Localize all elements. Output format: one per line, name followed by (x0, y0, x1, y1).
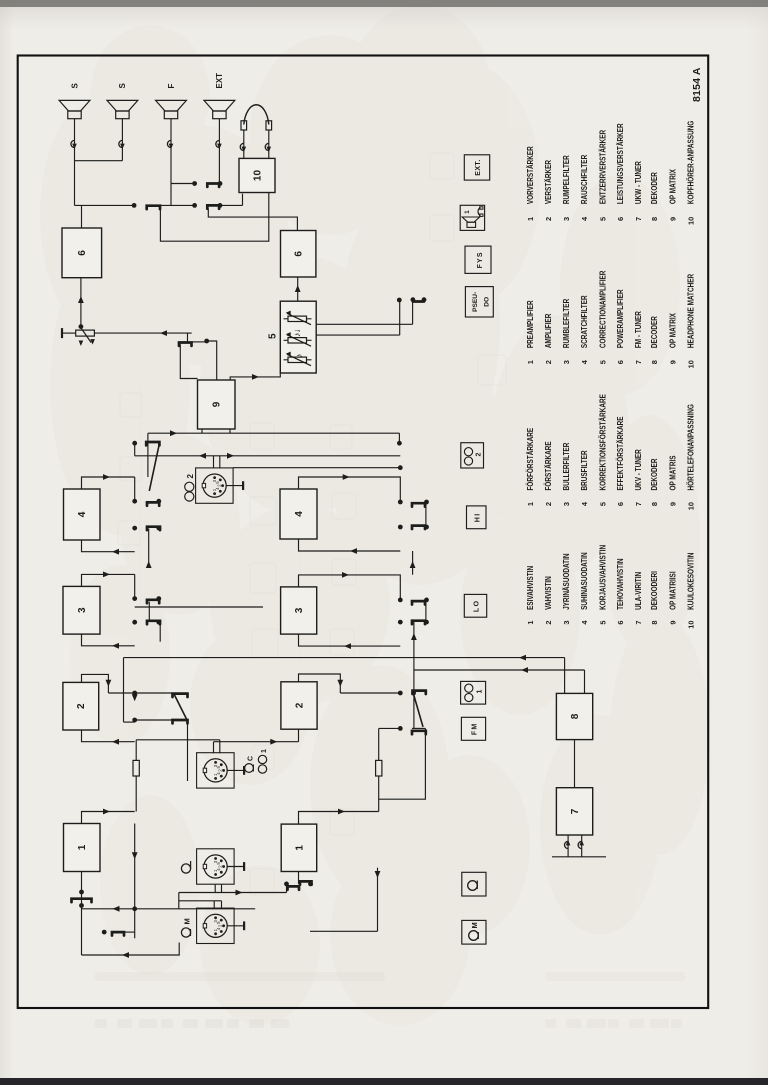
block B8 (8) (556, 693, 592, 739)
switch blade thrown (414, 694, 423, 727)
scanner dark band bottom (0, 1078, 768, 1085)
svg-text:PREAMPLIFIER: PREAMPLIFIER (526, 300, 535, 348)
DIN1 stub 1 (213, 742, 215, 754)
svg-text:♪♩: ♪♩ (292, 324, 302, 338)
ch B in jog x439 (299, 634, 401, 646)
junction (398, 691, 403, 696)
junction (132, 718, 137, 723)
plug hook (578, 841, 582, 848)
svg-text:10: 10 (252, 170, 263, 182)
svg-text:3: 3 (213, 920, 218, 923)
block B4b (4) (280, 489, 317, 539)
ch A out jog x608 (82, 477, 135, 489)
junction (132, 203, 137, 208)
speaker lead y=74.5 (74, 119, 76, 161)
svg-text:3: 3 (562, 217, 571, 221)
arrow (90, 339, 95, 345)
svg-text:EXT.: EXT. (475, 159, 482, 175)
junction (398, 620, 403, 625)
svg-text:3: 3 (562, 360, 571, 364)
tape1 C icon (245, 764, 254, 773)
B6b out (208, 209, 297, 231)
arrow (227, 453, 234, 459)
block B2b (2) (281, 682, 317, 729)
border frame (18, 56, 709, 1009)
speaker+phones icon (467, 222, 476, 227)
arrow (112, 739, 119, 745)
svg-text:2: 2 (476, 453, 483, 457)
row link B3b-B4b (412, 551, 414, 575)
svg-text:4: 4 (294, 511, 305, 517)
bleed text smudge 2 (545, 1019, 682, 1028)
svg-text:8: 8 (570, 713, 581, 719)
svg-text:HÖRTELEFONANPASSNING: HÖRTELEFONANPASSNING (687, 404, 696, 490)
FM bus x415 (414, 669, 585, 671)
svg-text:DEKOODERI: DEKOODERI (650, 571, 659, 610)
svg-text:10: 10 (687, 621, 696, 629)
svg-text:ULA-VIRITIN: ULA-VIRITIN (634, 572, 643, 610)
hook arrow (242, 147, 247, 153)
svg-text:2: 2 (294, 702, 305, 708)
svg-text:8154 A: 8154 A (691, 67, 703, 102)
svg-text:SCRATCHFILTER: SCRATCHFILTER (580, 295, 589, 348)
pot to B6a (80, 278, 82, 327)
junction (422, 297, 427, 302)
svg-text:FYS: FYS (477, 251, 484, 268)
svg-text:7: 7 (634, 360, 643, 364)
hook arrow (217, 144, 222, 150)
svg-text:2: 2 (218, 865, 223, 868)
arrow (295, 285, 301, 292)
hook arrow (566, 840, 571, 846)
DIN2 stub 2 (219, 456, 221, 469)
junction (218, 203, 223, 208)
plug hook (216, 140, 220, 147)
DIN socket tape 1 (197, 753, 235, 788)
ch A in jog x533 (82, 540, 135, 552)
riser link (178, 893, 180, 909)
svg-text:DEKODER: DEKODER (650, 172, 659, 204)
tape bus x478 (135, 606, 263, 608)
B1b out jog (299, 812, 379, 825)
bleed strip inside 2 (545, 972, 685, 981)
arrow (411, 633, 417, 640)
junction (192, 181, 197, 186)
pot line down (94, 332, 191, 334)
ch A out jog x274 (82, 812, 135, 824)
svg-text:1: 1 (77, 844, 88, 850)
tape play row B (413, 622, 415, 728)
arrow (112, 643, 119, 649)
junction (398, 598, 403, 603)
B1b in (298, 872, 300, 884)
arrow (410, 561, 416, 568)
svg-text:1: 1 (294, 845, 305, 851)
switch near pot (179, 343, 192, 346)
svg-text:4: 4 (77, 511, 88, 517)
tape2 blade (413, 300, 424, 303)
phono riser/down feed (179, 892, 287, 894)
svg-text:BRUSFILTER: BRUSFILTER (580, 450, 589, 490)
junction (132, 691, 137, 696)
plug hook (71, 140, 75, 147)
switch blade (173, 720, 188, 723)
svg-text:7: 7 (634, 502, 643, 506)
svg-text:6: 6 (616, 360, 625, 364)
svg-text:RUMBLEFILTER: RUMBLEFILTER (562, 299, 571, 348)
svg-text:4: 4 (580, 216, 589, 221)
F drop (171, 183, 195, 185)
into B9 ch A (201, 429, 203, 433)
junction (79, 890, 84, 895)
junction (424, 620, 429, 625)
junction (132, 906, 137, 911)
phono pin stub 2 (221, 885, 223, 893)
input feed 2 (82, 908, 256, 910)
B6a out to S line (81, 205, 83, 228)
svg-text:4: 4 (580, 501, 589, 506)
phono icon label (181, 864, 190, 873)
svg-text:1: 1 (526, 360, 535, 364)
junction (79, 903, 84, 908)
svg-text:TEHOVAHVISTIN: TEHOVAHVISTIN (616, 558, 625, 610)
speaker S 2 (116, 111, 129, 119)
tape1 reels icon (258, 765, 266, 773)
arrow (519, 655, 526, 661)
svg-text:JYRINÄSUODATIN: JYRINÄSUODATIN (562, 553, 571, 610)
mic B loop v (310, 930, 378, 932)
resistor ch A (133, 760, 139, 776)
input feed 1 (82, 943, 180, 956)
junction (398, 465, 403, 470)
svg-text:3: 3 (562, 621, 571, 625)
B2a out step (82, 674, 109, 693)
junction (192, 203, 197, 208)
svg-text:DECODER: DECODER (650, 316, 659, 348)
svg-text:4: 4 (580, 359, 589, 364)
junction (102, 930, 107, 935)
junction (411, 297, 416, 302)
arrow (252, 374, 259, 380)
junction (284, 882, 289, 887)
B7 to B8 (574, 740, 576, 788)
block B3b (3) (281, 587, 317, 634)
svg-text:M: M (183, 918, 192, 924)
headphone lead 1 (243, 130, 245, 158)
DIN1 riser A (136, 739, 220, 741)
junction (156, 526, 161, 531)
B9 feed column (148, 432, 400, 434)
svg-text:3: 3 (77, 607, 88, 613)
junction (424, 525, 429, 530)
mic icon label (181, 928, 190, 937)
B5 tap 1 (316, 334, 400, 336)
svg-text:1: 1 (464, 210, 471, 214)
junction (132, 499, 137, 504)
ch A in jog x439 (82, 634, 135, 646)
svg-text:DEKODER: DEKODER (650, 458, 659, 490)
button box FM (461, 717, 485, 740)
svg-text:S: S (118, 83, 127, 89)
svg-text:UKW - TUNER: UKW - TUNER (634, 161, 643, 204)
DIN socket phono (197, 849, 235, 884)
svg-text:8: 8 (650, 502, 659, 506)
svg-text:8: 8 (650, 621, 659, 625)
svg-text:5: 5 (598, 217, 607, 221)
potentiometer in B5 #1 (288, 357, 307, 362)
riser (135, 692, 172, 694)
riser (135, 719, 172, 721)
to resistor A (135, 776, 137, 812)
svg-text:4: 4 (216, 927, 221, 930)
plug hook (564, 841, 568, 848)
arrow (342, 572, 349, 578)
junction (132, 526, 137, 531)
hook arrow (72, 144, 77, 150)
DIN socket microphone (197, 908, 235, 943)
pot arrow 2 (286, 332, 291, 336)
speaker switch blade B (207, 205, 219, 208)
junction (398, 500, 403, 505)
arrow (270, 739, 277, 745)
svg-text:3: 3 (562, 502, 571, 506)
junction (156, 596, 161, 601)
svg-text:KUULOKESOVITIN: KUULOKESOVITIN (687, 552, 696, 609)
switch blade (147, 527, 160, 530)
B1a input rail (81, 872, 83, 956)
B10 loop (160, 193, 268, 242)
svg-text:S: S (70, 83, 79, 89)
svg-text:LEISTUNGSVERSTÄRKER: LEISTUNGSVERSTÄRKER (616, 123, 625, 204)
junction (424, 500, 429, 505)
svg-text:5: 5 (268, 333, 279, 339)
bottom link under B3b (425, 599, 427, 621)
block B1b (1) (281, 824, 317, 871)
svg-text:1: 1 (526, 217, 535, 221)
B9 top out (180, 344, 197, 378)
hook arrow (169, 144, 174, 150)
arrow (132, 852, 138, 859)
button box EXT (464, 155, 489, 180)
blade under B2b L (412, 731, 426, 734)
svg-text:9: 9 (668, 360, 677, 364)
ch B out jog x608 (299, 477, 401, 502)
col879 mid (160, 204, 195, 206)
svg-text:ENTZERRVERSTÄRKER: ENTZERRVERSTÄRKER (598, 130, 607, 204)
speaker S 1 (68, 111, 81, 119)
phono pin stub 1 (214, 885, 216, 893)
svg-text:10: 10 (687, 502, 696, 510)
svg-text:DO: DO (484, 297, 491, 307)
svg-text:4: 4 (215, 487, 220, 490)
switch blade thrown (174, 693, 187, 719)
ch A in jog x343 (82, 730, 135, 742)
svg-text:1: 1 (261, 749, 268, 753)
scanner shading top (0, 7, 768, 29)
B2b out step (299, 674, 341, 693)
svg-text:2: 2 (544, 217, 553, 221)
under B1a row (134, 824, 136, 939)
speaker lead y=171.0 (170, 119, 172, 206)
DIN1 to B2b (214, 741, 299, 743)
S feed (74, 161, 76, 206)
switch blade (147, 502, 159, 505)
input switch B1 (288, 886, 300, 889)
hook arrow (120, 144, 125, 150)
B8 out 1 (564, 658, 566, 694)
svg-text:5: 5 (598, 621, 607, 625)
junction (156, 499, 161, 504)
resistor A out (135, 740, 137, 761)
svg-text:1: 1 (477, 690, 484, 694)
svg-text:1: 1 (526, 502, 535, 506)
junction (132, 620, 137, 625)
S feed drop (75, 204, 135, 206)
B9 to B5 (230, 373, 280, 380)
antenna lead 2 (581, 835, 583, 857)
to DIN1 region (187, 722, 189, 782)
mic riser (179, 900, 214, 902)
svg-text:LO: LO (474, 600, 481, 613)
svg-text:9: 9 (212, 401, 223, 407)
svg-text:UKV - TUNER: UKV - TUNER (634, 449, 643, 490)
arrow (78, 296, 84, 303)
button box PSEUDO (465, 287, 493, 317)
long thrown blade (149, 444, 159, 491)
block B4a (4) (64, 489, 101, 540)
svg-text:6: 6 (616, 217, 625, 221)
junction (397, 441, 402, 446)
B9 right out (207, 341, 217, 380)
svg-text:2: 2 (218, 769, 223, 772)
bleed strip inside 1 (95, 972, 385, 981)
mic pin stub 1 (213, 901, 215, 908)
tape2 reels icon (185, 492, 194, 501)
mic B loop h (377, 868, 379, 932)
wiper junction (79, 324, 84, 329)
out link (134, 574, 136, 598)
tap h y123.5 (123, 658, 125, 723)
svg-text:3: 3 (294, 607, 305, 613)
arrow (146, 561, 152, 568)
svg-text:2: 2 (217, 484, 222, 487)
svg-text:HI: HI (474, 512, 481, 522)
block B5 (5) (280, 301, 316, 373)
junction (308, 882, 313, 887)
plug hook (240, 143, 244, 150)
block B7 (7) (556, 788, 592, 835)
svg-text:C: C (248, 756, 255, 761)
block B1a (1) (64, 824, 101, 872)
pot wiper arrow (80, 327, 91, 343)
arrow (103, 809, 110, 815)
switch blade (412, 621, 425, 624)
button box FYS (465, 246, 491, 273)
svg-text:FM - TUNER: FM - TUNER (634, 311, 643, 348)
svg-text:SUHINASUODATIN: SUHINASUODATIN (580, 552, 589, 610)
block B10 (10) (239, 158, 275, 192)
button box MIC (462, 920, 486, 944)
potentiometer in B5 #2 (288, 338, 307, 343)
svg-text:8: 8 (650, 217, 659, 221)
svg-text:2: 2 (218, 924, 223, 927)
input series switch (72, 899, 92, 902)
junction (398, 525, 403, 530)
svg-text:3: 3 (213, 764, 218, 767)
svg-text:5: 5 (598, 360, 607, 364)
svg-text:6: 6 (616, 621, 625, 625)
to resistor B (378, 776, 380, 812)
junction (411, 691, 416, 696)
svg-text:3: 3 (213, 860, 218, 863)
svg-text:FÖRSTÄRKARE: FÖRSTÄRKARE (544, 441, 553, 491)
DIN socket tape 2 (196, 468, 234, 503)
arrow (113, 906, 120, 912)
svg-text:5: 5 (598, 502, 607, 506)
pot arrow 3 (286, 311, 291, 315)
antenna lead 1 (567, 835, 569, 857)
svg-text:POWERAMPLIFIER: POWERAMPLIFIER (616, 289, 625, 348)
svg-text:2: 2 (76, 703, 87, 709)
DIN2 riser 2 (233, 467, 400, 469)
svg-text:6: 6 (77, 250, 88, 256)
switch blade (412, 601, 425, 604)
button box TAPE2 (461, 443, 484, 468)
mic pin stub 2 (221, 901, 223, 908)
svg-text:4: 4 (216, 868, 221, 871)
svg-text:2: 2 (544, 502, 553, 506)
to B9 h (147, 433, 149, 477)
button box TAPE1 (461, 681, 486, 704)
DIN1 stub 2 (219, 740, 221, 754)
input switch A2 (112, 932, 124, 935)
arrow (344, 643, 351, 649)
speaker lead y=122.4 (121, 119, 123, 161)
B2b riser (340, 692, 400, 694)
arrow (106, 680, 112, 687)
svg-text:2: 2 (544, 621, 553, 625)
antenna bar (552, 856, 606, 858)
arrow (521, 667, 528, 673)
svg-text:3: 3 (212, 479, 217, 482)
switch blade (147, 621, 160, 624)
S speakers join (75, 160, 123, 162)
plug hook (167, 140, 171, 147)
junction (397, 298, 402, 303)
svg-text:4: 4 (216, 772, 221, 775)
svg-text:OP MATRIX: OP MATRIX (668, 169, 677, 205)
blade under B2b R (413, 691, 426, 694)
svg-text:CORRECTIONAMPLIFIER: CORRECTIONAMPLIFIER (598, 270, 607, 348)
svg-text:2: 2 (186, 474, 195, 479)
svg-text:BULLERFILTER: BULLERFILTER (562, 442, 571, 490)
speaker switch blade A (147, 206, 160, 209)
B5 to B6b (297, 277, 299, 301)
button box PHONO (462, 872, 486, 896)
svg-text:RAUSCHFILTER: RAUSCHFILTER (580, 155, 589, 204)
S1 riser top (108, 692, 134, 694)
svg-text:7: 7 (634, 217, 643, 221)
junction (132, 441, 137, 446)
ch B out jog x510 (299, 575, 401, 600)
svg-text:4: 4 (580, 620, 589, 625)
link to pot line (187, 333, 189, 342)
hook arrow (579, 840, 584, 846)
switch blade (412, 526, 425, 529)
svg-text:F: F (167, 84, 176, 89)
DIN2 riser 1 (135, 455, 401, 457)
input switch B2 (300, 881, 312, 884)
